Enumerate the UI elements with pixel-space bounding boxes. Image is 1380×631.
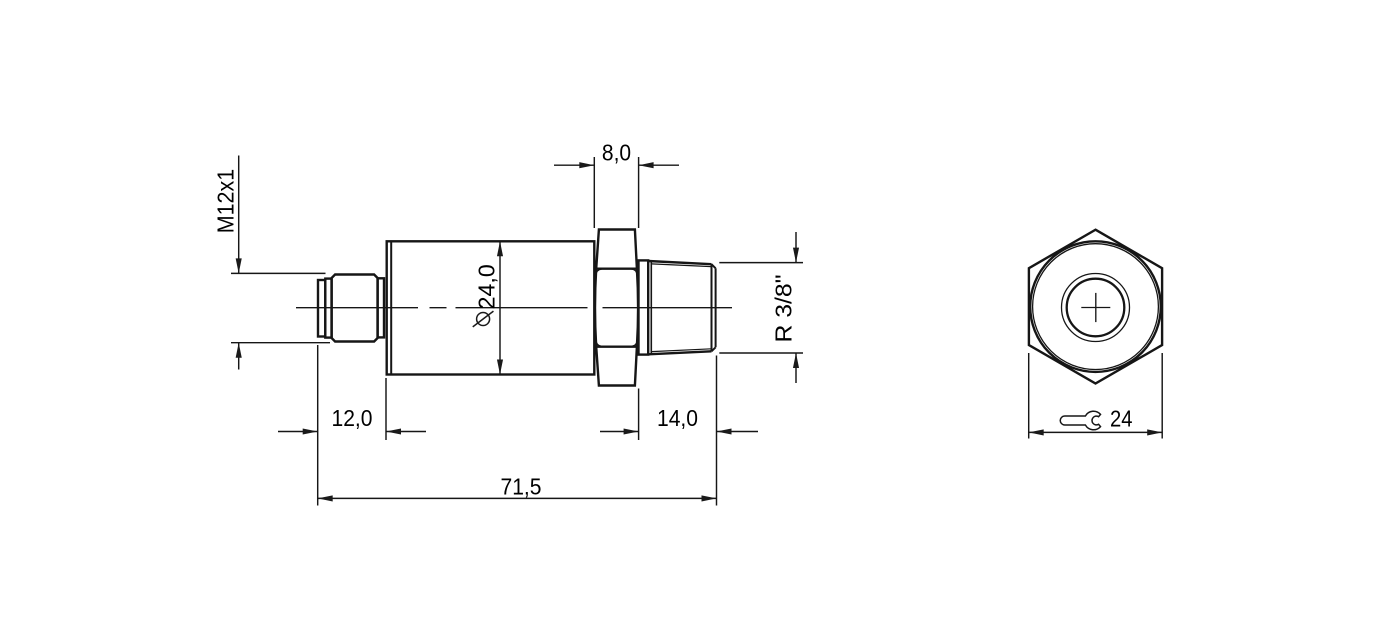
hex chamfer arcs xyxy=(596,269,638,346)
svg-text:M12x1: M12x1 xyxy=(213,169,239,234)
centerline side view xyxy=(296,307,732,309)
front view port inner circle xyxy=(1067,279,1125,337)
svg-text:24: 24 xyxy=(1110,406,1133,432)
svg-text:14,0: 14,0 xyxy=(657,405,698,431)
thread OD bottom (tapered) xyxy=(648,351,711,354)
thread OD top (tapered) xyxy=(648,261,711,264)
dimension dia 24,0 xyxy=(499,241,501,374)
wrench symbol xyxy=(1060,411,1100,430)
front view hexagon xyxy=(1029,230,1162,384)
thread start line xyxy=(650,261,652,354)
dimension 24 across flats xyxy=(1029,353,1163,439)
svg-text:71,5: 71,5 xyxy=(501,474,542,500)
dimension 12,0 xyxy=(278,345,426,506)
svg-text:R 3/8": R 3/8" xyxy=(771,275,797,343)
collar between hex and thread xyxy=(639,260,649,354)
connector ring A (left end cap) xyxy=(318,280,325,337)
connector ring B xyxy=(325,279,331,338)
dimension R 3/8" xyxy=(719,232,803,383)
svg-text:8,0: 8,0 xyxy=(602,140,631,166)
body chamfer line xyxy=(390,241,392,374)
connector knurled nut M12 xyxy=(332,275,378,342)
hex nut side view outline xyxy=(595,230,638,386)
thread root bottom xyxy=(652,349,712,352)
hex facet line lower xyxy=(596,346,637,348)
dimension M12x1 xyxy=(231,156,330,370)
text dia 24,0 xyxy=(473,264,500,327)
svg-text:12,0: 12,0 xyxy=(332,405,373,431)
front view chamfer circle xyxy=(1033,244,1159,370)
svg-text:24,0: 24,0 xyxy=(473,264,499,309)
hex facet line upper xyxy=(596,268,637,270)
dimension 14,0 xyxy=(600,356,758,506)
connector ring C xyxy=(378,278,384,337)
dimension 8,0 xyxy=(554,157,679,228)
thread root top xyxy=(652,264,712,267)
front view center cross xyxy=(1081,293,1110,322)
front view port outer circle xyxy=(1062,274,1130,342)
sensor body cylinder xyxy=(387,241,595,374)
front view inscribed circle xyxy=(1030,241,1161,372)
thread end chamfer xyxy=(712,264,716,351)
dimension 71,5 xyxy=(318,497,717,499)
